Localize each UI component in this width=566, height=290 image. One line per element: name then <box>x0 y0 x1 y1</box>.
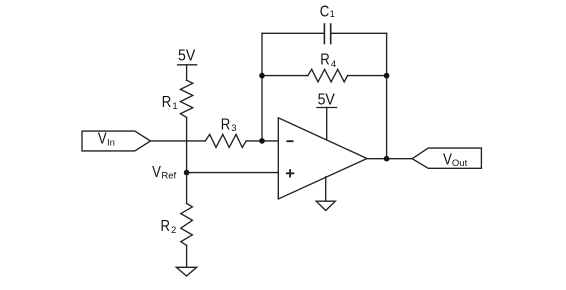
svg-text:2: 2 <box>171 225 176 236</box>
wire VIn to R3 <box>151 140 206 142</box>
svg-text:Out: Out <box>452 158 468 169</box>
svg-text:R: R <box>161 218 170 235</box>
resistor R1 <box>180 80 192 117</box>
power bar 5V opamp <box>317 107 337 109</box>
svg-text:R: R <box>162 94 171 111</box>
wire VRef to R2 <box>186 173 188 204</box>
wire 5V to R1 <box>186 65 188 80</box>
label R4 <box>320 52 336 70</box>
svg-text:3: 3 <box>231 123 236 134</box>
wire R1 to Vref rail <box>186 118 188 173</box>
wire feedback right vertical <box>386 33 388 158</box>
wire feedback top left <box>262 32 324 34</box>
pin minus sign <box>287 140 292 142</box>
capacitor C1 <box>324 24 330 44</box>
port flag VIn <box>82 131 151 151</box>
label VIn <box>98 131 115 149</box>
ground symbol below R2 <box>176 267 196 276</box>
wire R2 to ground <box>186 245 188 267</box>
svg-text:V: V <box>98 131 107 148</box>
resistor R4 <box>308 69 348 82</box>
label R2 <box>161 218 177 236</box>
wire opamp to ground <box>325 177 327 201</box>
svg-text:4: 4 <box>331 59 336 70</box>
junction dot inverting node <box>259 138 265 144</box>
wire output <box>367 158 412 160</box>
svg-text:In: In <box>107 137 115 148</box>
label C1 <box>320 4 335 21</box>
label 5V opamp supply <box>318 92 335 109</box>
svg-text:R: R <box>320 52 329 69</box>
resistor R3 <box>205 134 246 147</box>
wire 5V to opamp <box>326 108 328 140</box>
ground symbol below opamp <box>316 201 335 210</box>
resistor R2 <box>181 204 193 246</box>
port flag VOut <box>412 148 481 168</box>
svg-text:V: V <box>152 164 161 181</box>
wire feedback top right <box>331 32 387 34</box>
svg-text:5V: 5V <box>178 48 195 65</box>
label 5V rail R1 <box>178 48 195 65</box>
wire R3 to inverting input <box>246 140 278 142</box>
wire VRef to non-inverting input <box>187 172 279 174</box>
label R1 <box>162 94 178 112</box>
wire feedback left vertical <box>261 33 263 141</box>
junction dot VRef <box>184 170 190 176</box>
svg-text:1: 1 <box>330 9 335 20</box>
svg-text:R: R <box>221 117 230 134</box>
label VRef <box>152 164 176 181</box>
junction dot R4 right <box>384 73 390 79</box>
junction dot R4 left <box>259 73 265 79</box>
junction dot output <box>384 156 390 162</box>
op-amp U1 <box>278 118 367 199</box>
svg-text:C: C <box>320 4 329 21</box>
power bar 5V R1 <box>178 64 197 66</box>
label VOut <box>443 152 467 170</box>
pin plus sign <box>287 170 293 176</box>
svg-text:Ref: Ref <box>161 170 176 181</box>
svg-text:5V: 5V <box>318 92 335 109</box>
wire R4 left lead <box>262 75 308 77</box>
svg-text:1: 1 <box>172 101 177 112</box>
label R3 <box>221 117 237 134</box>
wire R4 right lead <box>348 75 387 77</box>
